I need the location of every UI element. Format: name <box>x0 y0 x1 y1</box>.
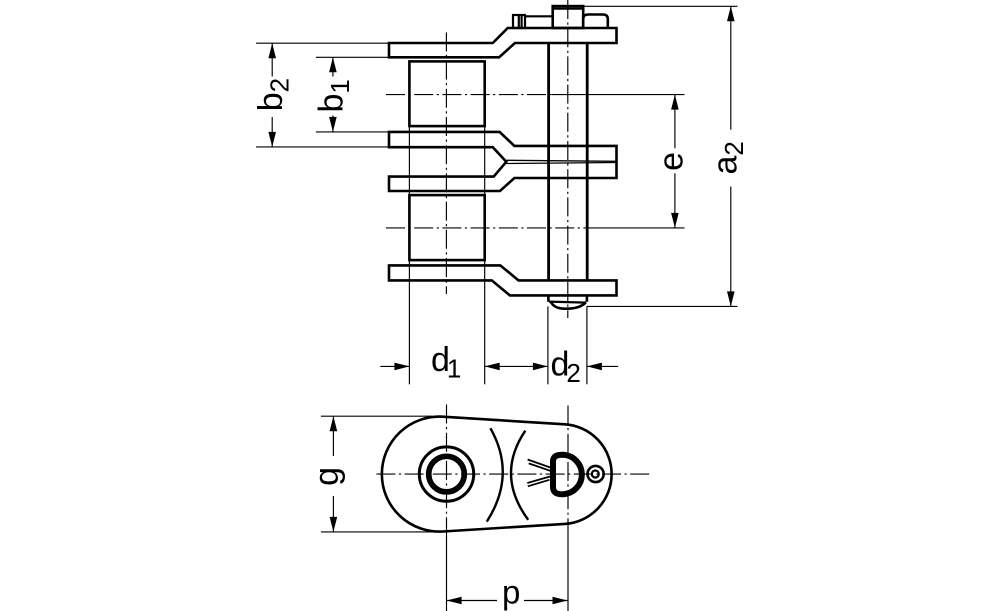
middle plates mating lines <box>507 160 617 161</box>
link plate outline (plan view, tapered) <box>382 417 612 532</box>
split pin tips (left small block with verticals) <box>513 15 525 28</box>
label a2 <box>707 141 749 174</box>
g extension line top <box>321 415 432 417</box>
waist arc right <box>511 431 528 520</box>
bottom outer plate (cranked) <box>389 265 617 295</box>
washer / clip right of pin head <box>583 15 608 29</box>
cotter pin legs (whiskers) upper <box>528 460 551 468</box>
label g <box>308 467 346 486</box>
svg-text:g: g <box>308 467 346 486</box>
bush circle (plan) <box>427 455 465 493</box>
pin riveted dome (bottom) <box>547 295 550 301</box>
b2 extension line top <box>256 42 390 44</box>
centerline row 1 horizontal <box>386 94 552 96</box>
centerline pin axis (top view, right hole) <box>567 0 569 318</box>
label b2 <box>252 78 294 111</box>
p dimension line + arrows <box>447 600 497 602</box>
label b1 <box>313 79 355 112</box>
svg-text:p: p <box>502 574 520 611</box>
b1 extension line top <box>316 56 390 58</box>
pin head (top) <box>553 6 584 28</box>
pin right edge <box>586 43 589 280</box>
g extension line bottom <box>321 531 432 533</box>
cotter pin ring (plan, thick) <box>553 455 582 494</box>
bottom view centerline vertical left hole <box>446 405 448 533</box>
waist arc left <box>487 428 503 521</box>
pin head inner line <box>553 8 584 10</box>
a2 dimension line + arrows <box>730 6 732 129</box>
b1 extension line bottom <box>316 131 390 133</box>
b2 dimension line + arrows <box>271 43 273 76</box>
label e <box>653 152 691 171</box>
roller upper (row 1) <box>409 61 484 126</box>
roller outer circle (plan) <box>419 447 473 501</box>
d2 extension line right <box>586 306 588 384</box>
bottom view centerline vertical pin hole <box>567 406 569 533</box>
centerline row 2 horizontal <box>386 227 590 229</box>
g dimension line + arrows <box>332 416 334 456</box>
d1 extension line right (roller edge extended) <box>484 126 486 195</box>
pin hole circle (plan) <box>430 458 463 491</box>
b1 dimension line + arrows <box>332 57 334 76</box>
e extension line bottom (row2 centerline extended) <box>590 227 685 229</box>
cotter pin bent tip small circle inner <box>592 471 599 478</box>
svg-text:e: e <box>653 152 691 171</box>
d1-d2 middle dimension line (arrows both ends) <box>485 365 548 367</box>
roller lower (row 2) <box>409 195 484 260</box>
b2 extension line bottom <box>256 146 390 148</box>
top outer plate (cranked) <box>389 28 617 57</box>
d1 extension line left (roller edge extended) <box>408 126 410 195</box>
pin left edge <box>547 43 550 280</box>
cotter pin bent tip small circle outer <box>588 466 604 482</box>
middle plate pair (cranked, with V notch) <box>389 132 617 191</box>
a2 extension line top <box>583 5 737 7</box>
split pin legs bar (left of pin head) <box>525 15 553 17</box>
d2 dimension arrow right (outside) <box>587 365 618 367</box>
bottom view centerline horizontal <box>376 473 649 475</box>
d1 dimension arrow left (outside) <box>380 365 409 367</box>
cotter pin legs (whiskers) lower <box>527 477 550 484</box>
e extension line top (row1 centerline extended) <box>552 94 685 96</box>
centerline roller axis (top view, left hole) <box>445 32 447 294</box>
d2 extension line left (pin edge extended) <box>547 306 549 384</box>
e dimension line + arrows <box>674 95 676 149</box>
a2 extension line bottom <box>587 305 738 307</box>
